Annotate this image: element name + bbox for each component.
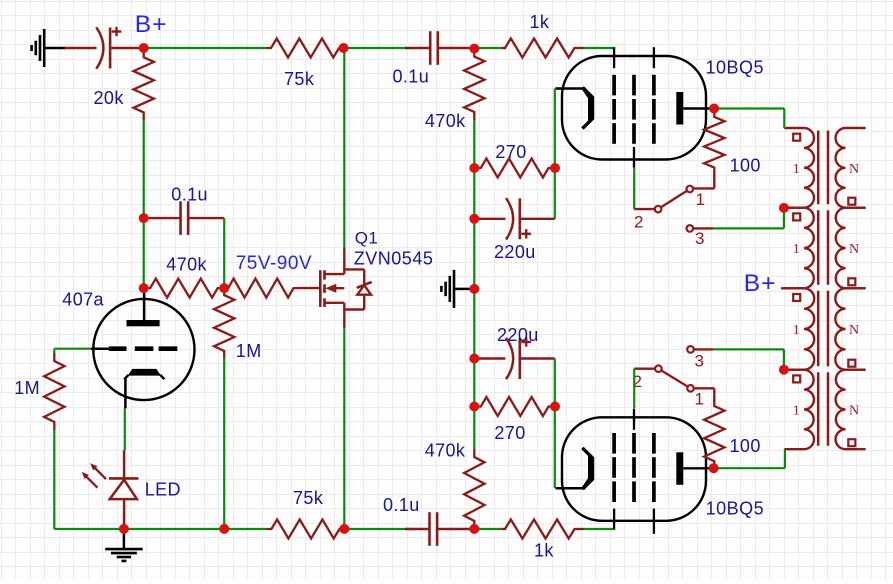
svg-text:Q1: Q1 <box>355 229 379 248</box>
junction node <box>709 104 719 114</box>
svg-text:1k: 1k <box>534 541 554 561</box>
svg-text:0.1u: 0.1u <box>383 495 420 515</box>
tube V1 plate <box>143 288 146 320</box>
ground GND3 (bottom) <box>123 529 126 550</box>
resistor R11 270 (upper) <box>474 159 555 178</box>
resistor R12 270 (lower) <box>474 397 555 416</box>
svg-text:470k: 470k <box>425 441 466 461</box>
junction node <box>469 402 479 412</box>
svg-text:2: 2 <box>634 213 644 232</box>
svg-text:ZVN0545: ZVN0545 <box>354 248 434 268</box>
svg-text:75k: 75k <box>293 488 324 508</box>
junction node <box>219 283 229 293</box>
resistor R3 470k (grid) <box>144 279 225 298</box>
wire <box>713 348 784 350</box>
junction node <box>339 43 349 53</box>
junction node <box>469 214 479 224</box>
switch SW1 contact 2 <box>655 206 662 213</box>
switch SW2 contact 2 <box>655 365 662 372</box>
switch SW1 blade <box>661 191 687 208</box>
svg-text:B+: B+ <box>744 270 777 297</box>
svg-text:1k: 1k <box>530 12 550 32</box>
svg-text:N: N <box>849 403 860 418</box>
transistor Q1 ZVN0545 <box>343 248 345 274</box>
svg-text:1M: 1M <box>236 341 262 361</box>
wire <box>713 227 784 229</box>
wire plate to T1 <box>714 107 784 109</box>
wire <box>473 219 475 289</box>
diode D1 zener <box>344 268 364 270</box>
capacitor C2 0.1u (mid) <box>144 217 181 219</box>
wire <box>224 528 266 530</box>
junction node <box>119 524 129 534</box>
wire <box>474 528 506 530</box>
ground GND1 (input) <box>43 29 46 67</box>
svg-text:1: 1 <box>793 403 800 418</box>
svg-text:0.1u: 0.1u <box>393 67 430 87</box>
LED arrows <box>85 475 97 487</box>
wire <box>633 168 635 209</box>
svg-text:100: 100 <box>730 156 761 176</box>
transformer T1 winding 4 <box>784 370 814 450</box>
junction node <box>469 284 479 294</box>
switch SW2 contact 1 <box>687 385 694 392</box>
wire <box>473 168 475 219</box>
tube V1 cathode <box>128 369 161 376</box>
tube V2 10BQ5 (upper) <box>562 56 706 160</box>
junction node <box>139 283 149 293</box>
wire <box>473 120 475 168</box>
switch SW2 blade <box>661 370 688 386</box>
transformer T1 winding 1 <box>784 128 814 208</box>
resistor R8 75k (bottom) <box>267 520 345 539</box>
svg-text:470k: 470k <box>166 255 207 275</box>
wire <box>633 369 635 409</box>
transformer T1 winding 3 <box>784 288 814 369</box>
svg-text:220u: 220u <box>497 325 539 345</box>
svg-text:270: 270 <box>495 142 526 162</box>
wire bottom rail <box>54 528 124 530</box>
wire <box>554 359 556 489</box>
wire <box>344 47 414 49</box>
tube V3 10BQ5 (lower) <box>562 417 706 521</box>
junction node <box>779 365 789 375</box>
wire <box>555 487 556 489</box>
resistor R2 75k <box>267 39 344 58</box>
wire T1 to plate <box>784 449 786 468</box>
wire <box>554 89 556 219</box>
junction node <box>139 43 149 53</box>
wire <box>555 87 556 89</box>
resistor R7 1M (left) <box>44 353 64 430</box>
svg-text:N: N <box>849 162 860 177</box>
svg-text:1: 1 <box>793 323 800 338</box>
junction node <box>550 402 560 412</box>
junction node <box>550 163 560 173</box>
resistor R14 100 (upper) <box>704 109 724 177</box>
capacitor C3 0.1u (top) <box>405 47 430 49</box>
svg-text:10BQ5: 10BQ5 <box>706 58 765 78</box>
wire <box>53 430 55 529</box>
svg-text:1: 1 <box>793 242 800 257</box>
diode D2 LED <box>123 450 126 478</box>
svg-text:1M: 1M <box>14 378 40 398</box>
wire <box>584 47 615 49</box>
wire <box>223 358 225 529</box>
svg-text:10BQ5: 10BQ5 <box>706 499 765 519</box>
ground GND2 (middle) <box>453 270 456 308</box>
wire <box>65 47 97 49</box>
svg-text:0.1u: 0.1u <box>171 185 208 205</box>
svg-text:3: 3 <box>695 229 705 248</box>
svg-text:LED: LED <box>145 480 181 500</box>
resistor R6 1M (right) <box>214 288 234 358</box>
resistor R4 (gate stopper) <box>224 279 297 298</box>
capacitor C1 (input, polarized) <box>96 27 103 68</box>
wire <box>474 47 506 49</box>
wire <box>473 289 475 359</box>
wire <box>124 408 126 450</box>
junction node <box>469 163 479 173</box>
transformer T1 winding 2 <box>784 208 813 289</box>
switch SW1 contact 3 <box>687 225 694 232</box>
capacitor C6 0.1u (bottom) <box>405 528 430 530</box>
svg-text:1: 1 <box>695 390 705 409</box>
wire <box>343 48 345 248</box>
switch SW1 contact 1 <box>687 186 694 193</box>
wire <box>144 47 267 49</box>
junction node <box>779 203 789 213</box>
capacitor C4 220u (upper) <box>474 218 505 220</box>
junction node <box>709 463 719 473</box>
wire <box>223 218 225 287</box>
resistor R15 100 (lower) <box>704 399 724 468</box>
svg-text:407a: 407a <box>62 290 104 310</box>
svg-text:N: N <box>849 242 860 257</box>
wire <box>143 218 145 288</box>
svg-text:20k: 20k <box>94 88 125 108</box>
svg-text:1: 1 <box>793 162 800 177</box>
svg-text:3: 3 <box>695 352 705 371</box>
svg-text:75k: 75k <box>284 69 315 89</box>
wire <box>584 528 615 530</box>
wire <box>344 528 412 530</box>
wire <box>343 328 345 529</box>
svg-text:N: N <box>849 323 860 338</box>
tube V1 grid <box>109 346 127 351</box>
junction node <box>469 44 479 54</box>
svg-text:100: 100 <box>730 436 761 456</box>
tube V1 407a envelope <box>93 299 194 400</box>
resistor R5 1k (top) <box>502 39 578 58</box>
wire <box>53 349 55 353</box>
wire <box>473 407 475 450</box>
svg-text:220u: 220u <box>494 242 536 262</box>
svg-text:75V-90V: 75V-90V <box>236 253 312 274</box>
junction node <box>469 524 479 534</box>
resistor R1 20k <box>134 49 154 120</box>
junction node <box>469 354 479 364</box>
resistor R10 470k (top) <box>464 49 484 120</box>
resistor R13 470k (bottom) <box>464 449 484 529</box>
transformer T1 B+ lead <box>781 287 804 289</box>
svg-text:1: 1 <box>696 190 706 209</box>
wire <box>54 348 91 350</box>
wire <box>143 120 145 218</box>
svg-text:470k: 470k <box>425 111 466 131</box>
junction node <box>339 524 349 534</box>
switch SW2 contact 3 <box>687 346 694 353</box>
capacitor C5 220u (lower) <box>474 357 505 359</box>
wire <box>473 359 475 407</box>
junction node <box>219 524 229 534</box>
junction node <box>139 213 149 223</box>
svg-text:B+: B+ <box>135 11 168 38</box>
resistor R9 1k (bottom) <box>502 520 578 539</box>
svg-text:270: 270 <box>494 423 525 443</box>
